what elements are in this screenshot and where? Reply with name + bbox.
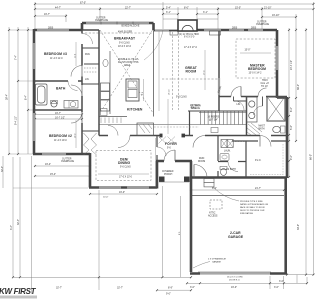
svg-text:32'-4": 32'-4" [17,219,20,225]
svg-text:GARAGE: GARAGE [228,235,244,239]
den front dim [90,193,157,195]
top wall left (bedroom3) [34,29,82,32]
mud/laundry walls [217,136,219,178]
garage bottom: solid corners [190,272,287,275]
half-bath door [228,162,238,172]
svg-text:DINING: DINING [118,161,130,165]
svg-text:OVERHANG: OVERHANG [61,160,74,163]
linen + stair right wall [246,97,248,136]
shower/toilet nook door [254,106,263,115]
garage entry door [194,165,207,178]
svg-text:BATH: BATH [259,128,265,131]
bath interior door to toilet [68,81,78,91]
closet/pantry/linen walls [82,47,99,49]
master/bath south wall y=96.5 [219,96,287,98]
den door [157,147,166,156]
svg-text:KW FIRST: KW FIRST [0,287,37,296]
svg-text:BATH: BATH [56,87,66,91]
svg-text:ACCESS: ACCESS [208,215,218,218]
foyer left wall [156,136,158,162]
bath top wall [34,80,82,82]
bedroom3 door [71,66,82,77]
svg-text:2850: 2850 [251,28,257,30]
svg-text:6'-0 X 5'-0: 6'-0 X 5'-0 [184,37,195,39]
svg-text:9'-0": 9'-0" [166,293,171,296]
svg-text:DOUBLE 11 7/8 LVL: DOUBLE 11 7/8 LVL [118,59,140,61]
right columns [288,28,290,177]
svg-text:32'-4": 32'-4" [1,166,4,172]
hall closet [137,123,154,136]
svg-text:KITCHEN: KITCHEN [127,108,143,112]
svg-text:ROOM: ROOM [198,161,205,163]
svg-text:LAUN.: LAUN. [224,150,231,153]
hall wall x=82 [81,30,83,154]
svg-text:16'-0 X 7'-0 OHD: 16'-0 X 7'-0 OHD [227,277,243,279]
den entry door [118,136,130,148]
linen door [235,101,244,110]
svg-text:8'-2": 8'-2" [290,107,293,112]
left-bottom extensions [2,156,4,188]
bottom dims [13,276,191,278]
svg-text:21'-10": 21'-10" [264,6,272,9]
svg-text:8'-4": 8'-4" [25,95,28,100]
svg-text:LIN.: LIN. [237,104,242,106]
svg-text:PORCH: PORCH [164,174,173,176]
svg-text:3'-0: 3'-0 [142,92,144,95]
svg-text:39'-4": 39'-4" [6,94,9,100]
svg-text:WALL: WALL [191,106,198,109]
bedroom2 door [71,112,82,123]
svg-text:TO 10': TO 10' [261,86,268,88]
bedroom3 closet door [82,34,93,45]
svg-text:44'-7": 44'-7" [55,6,61,9]
mud room door from hall [193,136,205,148]
garage left wall [190,161,193,272]
svg-text:(2) 11 7/8 LVL HDR: (2) 11 7/8 LVL HDR [179,34,199,36]
svg-text:PAN.: PAN. [85,53,91,56]
svg-text:10'-0": 10'-0" [103,197,109,199]
hall closet door [108,126,118,136]
svg-text:2 X 6 FRAMING AT: 2 X 6 FRAMING AT [208,258,227,261]
svg-text:FIRE RATING: FIRE RATING [240,212,253,215]
great room thin lines [76,31,271,187]
master bath interior stub [262,97,264,107]
svg-text:1/2 BATH: 1/2 BATH [226,168,236,171]
bath door [71,85,82,96]
svg-text:16'-7 1/2": 16'-7 1/2" [55,116,65,119]
svg-text:OVERHANG: OVERHANG [95,19,108,22]
pantry/kitchen wall x=99 [98,30,100,136]
svg-text:PROVIDE TYPE X FIRE: PROVIDE TYPE X FIRE [240,201,263,203]
hall/foyer north wall y=135.5 [99,135,240,137]
svg-text:15'-0": 15'-0" [245,50,251,52]
svg-text:LIN.: LIN. [85,79,90,81]
svg-text:DECK TO PROVIDE 1 HR: DECK TO PROVIDE 1 HR [240,210,265,212]
svg-text:22'-7": 22'-7" [125,6,131,9]
breakfast alcove bump [82,23,154,30]
P.L.O. door [260,136,271,147]
cased opening jambs [160,134,186,138]
svg-text:3'-4": 3'-4" [10,225,13,230]
hall shelf box [211,128,218,133]
svg-text:@ 7 3/4": @ 7 3/4" [209,120,218,122]
svg-text:FACE OF WALL TO ROOF: FACE OF WALL TO ROOF [240,206,266,209]
svg-text:9'-4 1/2": 9'-4 1/2" [15,116,18,125]
svg-text:9'-0 CLNG: 9'-0 CLNG [176,97,187,99]
svg-text:MAST: MAST [259,125,266,128]
svg-text:32'-7": 32'-7" [117,287,123,290]
south wall of P.L.O./bump [191,176,287,179]
garage top thin wall [191,195,284,197]
svg-text:16'-10: 16'-10 [169,89,171,95]
master left wall [218,30,220,111]
garage notes [208,258,243,282]
svg-text:3'-0": 3'-0" [279,280,284,283]
master bath door [258,88,267,97]
svg-text:DOOR R.O.: DOOR R.O. [229,280,241,282]
den bump [89,153,157,189]
svg-text:8'-9": 8'-9" [212,187,217,190]
svg-text:3'-1": 3'-1" [166,11,171,14]
garage top dims [191,189,284,191]
svg-text:9'-0 CLNG: 9'-0 CLNG [119,43,130,45]
svg-text:7'-4": 7'-4" [15,55,18,60]
svg-text:FLUSH JOIST THIS: FLUSH JOIST THIS [118,62,139,64]
svg-text:BEDROOM #3: BEDROOM #3 [44,52,67,56]
svg-text:10'-0 X 10'-6: 10'-0 X 10'-6 [118,46,132,48]
svg-text:9'-2": 9'-2" [290,155,293,160]
master bath south wall [240,135,287,137]
svg-text:ATTIC: ATTIC [209,212,216,215]
svg-text:3'-1": 3'-1" [203,11,208,14]
svg-text:17'-0 X 13'-0: 17'-0 X 13'-0 [119,177,133,179]
svg-text:30'-0": 30'-0" [297,224,300,230]
fire rating note [240,201,269,215]
svg-text:16'-7": 16'-7" [44,13,50,16]
front door [164,150,175,161]
svg-text:COVERED: COVERED [162,171,174,173]
svg-text:GARAGE: GARAGE [212,261,222,264]
svg-text:BEDROOM #2: BEDROOM #2 [49,134,72,138]
garage right wall [284,178,287,275]
svg-text:2850: 2850 [48,28,54,30]
svg-text:11'-4 X 10'-0: 11'-4 X 10'-0 [54,140,67,142]
window mullion ticks on alcove [101,22,133,25]
svg-text:P.L.O.: P.L.O. [255,160,262,162]
svg-text:16'-4": 16'-4" [45,163,51,166]
laundry top y=141 [232,140,287,142]
svg-text:5'-4": 5'-4" [166,6,171,9]
right exterior wall upper [286,97,289,178]
svg-text:MUD: MUD [199,158,205,160]
interior dim rows under bath [34,114,82,116]
svg-text:RATED GYPSUM BOARD ON: RATED GYPSUM BOARD ON [240,203,269,206]
svg-text:AREA: AREA [124,64,131,67]
svg-text:8'-0": 8'-0" [184,6,189,9]
svg-text:16 RISERS: 16 RISERS [208,117,220,119]
svg-text:66'-0": 66'-0" [310,154,313,160]
svg-text:16'-0": 16'-0" [119,191,125,194]
svg-text:11'-4 X 11'-0: 11'-4 X 11'-0 [50,58,63,60]
svg-text:3'-0": 3'-0" [190,286,195,289]
svg-text:BREAKFAST: BREAKFAST [114,37,136,41]
garage door band [200,272,270,274]
svg-text:16'-7": 16'-7" [55,112,61,115]
svg-text:15'-0": 15'-0" [235,6,241,9]
stairs boundaries [188,110,247,112]
svg-text:3'-0": 3'-0" [274,286,279,289]
bath bottom / bedroom2 top [34,109,82,111]
svg-text:8'-9": 8'-9" [168,287,173,290]
svg-text:ROOM: ROOM [186,70,197,74]
svg-text:24'-7 1/2": 24'-7 1/2" [290,60,293,70]
svg-text:CLG +9': CLG +9' [261,83,270,85]
svg-text:5'-0": 5'-0" [290,125,293,130]
svg-text:2850: 2850 [232,28,238,30]
foyer front wall w/ door gap [156,160,192,163]
svg-text:OVERHANG: OVERHANG [256,23,269,26]
svg-text:TRAY: TRAY [262,79,268,82]
left columns [8,27,10,154]
svg-text:BOXED ALCOVE: BOXED ALCOVE [122,25,140,28]
svg-text:17'-4 X 17'-0: 17'-4 X 17'-0 [184,47,198,49]
svg-text:67'-0": 67'-0" [80,1,86,4]
svg-text:16'-0": 16'-0" [231,286,237,289]
svg-text:4040 SLIDER: 4040 SLIDER [118,32,132,34]
front wall bedroom2 [33,153,90,156]
svg-text:BEDROOM: BEDROOM [248,67,266,71]
svg-text:16'-10": 16'-10" [272,14,280,17]
svg-text:32'-7": 32'-7" [56,287,62,290]
left exterior wall [33,29,36,154]
under bedroom2 dims [34,165,90,167]
svg-text:21'-7": 21'-7" [255,187,261,190]
svg-text:FOYER: FOYER [165,142,177,146]
svg-text:15'-0 X 14'-2: 15'-0 X 14'-2 [249,73,263,75]
svg-text:9'-0 CLNG: 9'-0 CLNG [120,167,131,169]
top wall centre + master [154,30,179,32]
svg-text:15'-4": 15'-4" [50,173,56,176]
svg-text:36'-2": 36'-2" [297,84,300,90]
master bedroom door [231,87,241,97]
